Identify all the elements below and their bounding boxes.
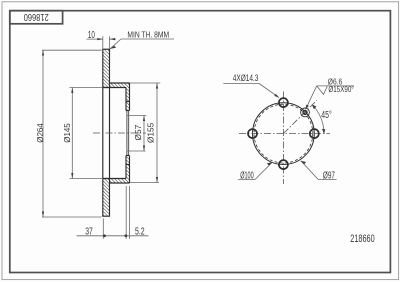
hatch ring top <box>103 49 110 87</box>
bore bottom tick <box>126 155 130 157</box>
svg-text:4XØ14.3: 4XØ14.3 <box>233 73 259 83</box>
ring inner radius line bottom <box>103 178 110 180</box>
svg-text:5.2: 5.2 <box>135 226 145 237</box>
bolt hole right <box>310 129 319 138</box>
bolt hole bottom <box>279 160 288 169</box>
dim Ø264 <box>42 50 44 217</box>
dots 37/5.2 <box>103 234 106 237</box>
web bottom inner edge <box>103 178 126 180</box>
hatch web+hub top <box>110 83 130 111</box>
countersink V symbol <box>317 86 328 95</box>
svg-text:MIN TH. 8MM: MIN TH. 8MM <box>127 31 169 40</box>
arrow to countersunk hole <box>305 105 309 110</box>
web top outer edge <box>110 82 130 84</box>
dim Ø145 <box>71 88 73 179</box>
dim 10: dimension line <box>87 38 103 40</box>
svg-text:Ø97: Ø97 <box>323 170 335 181</box>
svg-text:Ø264: Ø264 <box>35 123 45 143</box>
bolt hole left <box>248 129 257 138</box>
Ø6.6 underline <box>317 85 354 87</box>
horizontal centerline <box>239 133 330 135</box>
svg-text:Ø57: Ø57 <box>133 124 143 140</box>
svg-text:Ø100: Ø100 <box>240 170 254 181</box>
Ø97 underline + leader <box>318 179 336 181</box>
svg-text:218660: 218660 <box>24 11 49 22</box>
bore walls <box>126 111 128 156</box>
arrow Ø100 <box>267 162 272 165</box>
friction ring outline <box>103 49 110 216</box>
web bottom outer edge <box>110 182 130 184</box>
bolt hole tick bottom <box>126 164 130 166</box>
svg-text:37: 37 <box>85 227 93 238</box>
arrow Ø97 <box>301 161 306 165</box>
4XØ14.3 underline + leader <box>223 83 259 85</box>
svg-text:45°: 45° <box>321 110 331 121</box>
hub left face bottom <box>125 156 127 179</box>
svg-text:Ø15X90°: Ø15X90° <box>328 85 353 94</box>
countersunk hole inner <box>303 110 307 114</box>
title box top-left <box>10 11 63 24</box>
bolt hole top <box>279 98 288 107</box>
dim Ø155 <box>156 83 158 183</box>
MIN TH leader <box>121 38 174 40</box>
outer circle Ø100 solid <box>253 103 315 165</box>
Ø155 arrows <box>156 83 158 89</box>
hub right face bottom <box>129 156 131 184</box>
Ø264 arrows <box>42 50 44 56</box>
axis center line left view <box>93 132 146 134</box>
arrows left view <box>42 38 158 237</box>
countersink leader <box>306 86 317 108</box>
vertical centerline <box>282 92 284 185</box>
ring inner radius line top (Ø145) <box>103 87 110 89</box>
svg-text:Ø145: Ø145 <box>62 123 72 143</box>
svg-text:10: 10 <box>88 30 95 41</box>
diagonal 45 centerline <box>283 100 316 133</box>
Ø57 arrows <box>143 116 145 122</box>
arrow to top bolt hole <box>274 94 279 98</box>
45 degree arc <box>312 105 324 134</box>
dim Ø57 <box>143 116 145 152</box>
leaders right view <box>223 84 354 180</box>
dashed circle Ø97 <box>254 104 313 163</box>
web top inner edge <box>103 87 126 89</box>
dim 10 arrows (outside) <box>97 38 103 40</box>
hatch ring bottom <box>103 179 110 217</box>
hatch web+hub bottom <box>110 156 130 184</box>
svg-text:218660: 218660 <box>350 233 374 245</box>
dim 37 / 5.2: dimension line <box>77 235 149 237</box>
bore top tick <box>126 110 130 112</box>
hub right face top <box>129 83 131 111</box>
Ø100 underline + leader <box>238 179 255 181</box>
dim 10: extension lines <box>102 36 104 49</box>
svg-text:Ø155: Ø155 <box>146 122 156 143</box>
bolt hole tick top <box>126 101 130 103</box>
MIN TH arrow <box>110 46 116 49</box>
countersunk hole outer <box>301 108 310 117</box>
dim 37 / 5.2: extension lines <box>102 219 104 239</box>
hub left face top <box>125 88 127 111</box>
Ø145 arrows <box>71 88 73 94</box>
